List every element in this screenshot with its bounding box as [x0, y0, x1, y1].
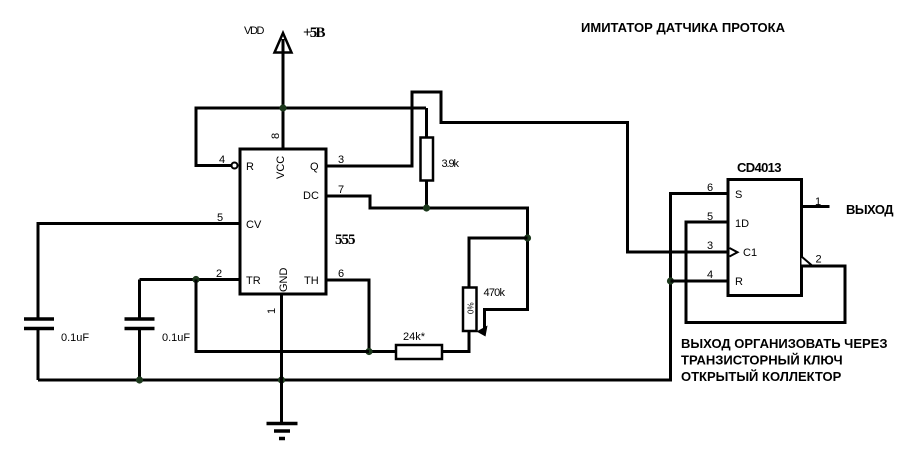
- power symbol VDD arrow: [275, 33, 292, 53]
- IC U1 555 timer body: [240, 149, 326, 294]
- wire R pin 4: [671, 280, 729, 283]
- wire TR pin 2 to C2: [140, 278, 241, 281]
- svg-text:470k: 470k: [484, 287, 506, 299]
- svg-text:4: 4: [219, 154, 225, 166]
- resistor R2 24k body: [396, 345, 442, 359]
- wire R2 to TH node: [369, 350, 396, 353]
- svg-text:R: R: [735, 276, 743, 288]
- junction R1 bottom / DC line: [423, 204, 430, 211]
- junction VDD rail / pin 8: [279, 104, 286, 111]
- svg-text:3: 3: [338, 154, 344, 166]
- wire Q pin 3 to CD4013 clock: [326, 92, 728, 252]
- wire output pin 1: [802, 205, 830, 208]
- wire pot top to DC line: [469, 238, 528, 288]
- svg-text:24k*: 24k*: [403, 331, 426, 343]
- svg-text:0%: 0%: [467, 302, 476, 314]
- capacitor C1 0.1uF: [24, 319, 54, 329]
- svg-text:+5В: +5В: [303, 25, 326, 41]
- svg-text:DC: DC: [303, 190, 319, 202]
- svg-text:0.1uF: 0.1uF: [162, 332, 190, 344]
- junction S line / R pin: [667, 277, 674, 284]
- wire 1D pin 5 feedback from pin 2: [686, 222, 845, 323]
- junction pot top branch: [524, 234, 531, 241]
- capacitor C2 0.1uF: [125, 319, 155, 329]
- wire R1 to DC node: [425, 181, 428, 209]
- wire C1 to ground rail: [37, 329, 40, 381]
- wire GND pin 1 to ground: [280, 294, 283, 423]
- svg-text:1D: 1D: [735, 218, 749, 230]
- svg-text:2: 2: [816, 254, 822, 266]
- wire DC pin 7 to pot wiper: [326, 196, 528, 330]
- svg-text:ИМИТАТОР ДАТЧИКА ПРОТОКА: ИМИТАТОР ДАТЧИКА ПРОТОКА: [581, 20, 786, 35]
- wire VDD arrow to pin 8: [282, 39, 285, 149]
- svg-text:TR: TR: [246, 275, 261, 287]
- svg-text:CV: CV: [246, 219, 262, 231]
- svg-text:ТРАНЗИСТОРНЫЙ КЛЮЧ: ТРАНЗИСТОРНЫЙ КЛЮЧ: [681, 353, 843, 368]
- junction TH / R2: [365, 348, 372, 355]
- svg-text:VDD: VDD: [244, 25, 265, 37]
- svg-text:Q: Q: [310, 161, 319, 173]
- svg-text:VCC: VCC: [275, 156, 287, 179]
- junction GND pin / ground rail: [278, 376, 285, 383]
- svg-text:ВЫХОД: ВЫХОД: [846, 202, 894, 217]
- svg-text:S: S: [735, 189, 742, 201]
- svg-text:GND: GND: [278, 268, 290, 293]
- wire CV pin 5 to C1: [38, 224, 240, 318]
- svg-text:C1: C1: [743, 247, 757, 259]
- svg-text:1: 1: [266, 308, 278, 314]
- wire VDD rail to R1: [425, 108, 428, 138]
- svg-text:CD4013: CD4013: [737, 160, 782, 175]
- svg-text:ВЫХОД ОРГАНИЗОВАТЬ ЧЕРЕЗ: ВЫХОД ОРГАНИЗОВАТЬ ЧЕРЕЗ: [681, 336, 887, 351]
- svg-text:7: 7: [338, 184, 344, 196]
- junction C2 / ground rail: [136, 376, 143, 383]
- pot wiper arrowhead: [477, 326, 488, 337]
- svg-text:8: 8: [270, 133, 282, 139]
- wire C2 to ground rail: [138, 329, 141, 381]
- inverted output triangle pin 2: [802, 257, 813, 266]
- svg-text:555: 555: [335, 232, 356, 248]
- wire VDD rail to pin 4: [196, 108, 426, 166]
- svg-text:TH: TH: [304, 275, 319, 287]
- svg-text:6: 6: [338, 268, 344, 280]
- clock input triangle C1: [730, 248, 738, 257]
- resistor R1 3.9k: [421, 138, 434, 181]
- wire ground rail to CD4013 S pin: [38, 194, 728, 381]
- junction TR branch: [192, 276, 199, 283]
- wire pot bottom to R2: [441, 331, 469, 352]
- inversion bubble pin 4: [232, 163, 238, 169]
- svg-text:4: 4: [707, 269, 713, 281]
- svg-text:3.9k: 3.9k: [442, 158, 460, 170]
- wire TR node to R2: [196, 280, 369, 352]
- svg-text:R: R: [246, 161, 254, 173]
- svg-text:0.1uF: 0.1uF: [61, 332, 89, 344]
- potentiometer R3 470k body: [463, 288, 477, 332]
- IC U2 CD4013 body: [728, 180, 802, 296]
- ground: [267, 424, 298, 439]
- wire C2 to TR line: [138, 280, 141, 320]
- svg-text:3: 3: [707, 240, 713, 252]
- svg-text:6: 6: [707, 182, 713, 194]
- wire TH pin 6: [326, 280, 369, 352]
- svg-text:ОТКРЫТЫЙ КОЛЛЕКТОР: ОТКРЫТЫЙ КОЛЛЕКТОР: [681, 369, 842, 384]
